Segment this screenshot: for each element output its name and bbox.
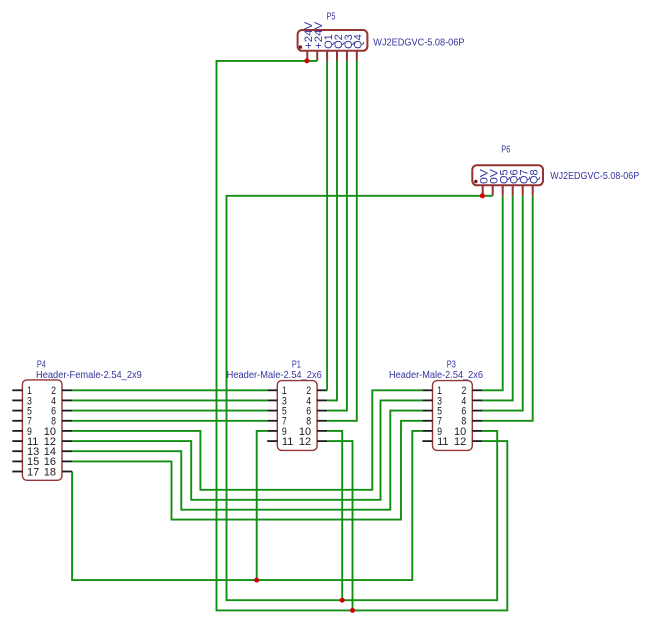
svg-text:11: 11 <box>437 436 448 448</box>
wire Q4: P5 pin6 down to P1 pin8 <box>327 61 357 421</box>
P5 pin name labels +24V +24V Q1 Q2 Q3 Q4 (rotated) <box>303 21 365 49</box>
wire P4 pin8 to P1 pin7 <box>72 420 267 422</box>
wire P4 pin14 to P3 pin5 <box>72 411 422 510</box>
P6 pin-1 dot <box>474 180 477 183</box>
svg-text:Header-Male-2.54_2x6: Header-Male-2.54_2x6 <box>389 369 483 381</box>
junction 0V at P6 pin1 <box>480 193 485 198</box>
P5 pin stubs (pins 1-6) <box>307 51 357 61</box>
connector P5 body (WJ2EDGVC-5.08-06P terminal block) <box>298 30 368 51</box>
wire P1 pin9 down to y=580 run <box>257 431 268 580</box>
wire P1 pin10 to 0V bottom run <box>327 431 342 600</box>
junction +24V bottom at x=352.5 <box>350 608 355 613</box>
svg-text:Q4: Q4 <box>353 34 365 49</box>
P1 left pin stubs <box>267 390 277 441</box>
wire P4 pin6 to P1 pin5 <box>72 410 267 412</box>
wire Q7: P6 pin5 down to P3 pin6 <box>482 196 522 411</box>
wire 0V bus: P6 pins 1-2 across, down, bottom run to P1.10/P3.10 <box>227 196 498 600</box>
wire P4 pin18 down and bottom run y=580 to P3 pin9 <box>72 431 422 580</box>
P4 left pin stubs <box>12 390 22 471</box>
svg-text:18: 18 <box>44 466 56 478</box>
wire P1 pin12 to +24V bottom run <box>327 441 352 610</box>
svg-text:12: 12 <box>299 436 311 448</box>
P3 right pin stubs <box>472 390 482 441</box>
wire Q1: P5 pin3 down to P1 pin2 <box>326 61 328 390</box>
svg-text:Header-Male-2.54_2x6: Header-Male-2.54_2x6 <box>227 369 322 381</box>
wire P4 pin10 to P3 pin1 <box>72 390 422 490</box>
P3 left pin stubs <box>422 390 432 441</box>
wire Q3: P5 pin5 down to P1 pin6 <box>327 61 347 411</box>
P4 pin numbers <box>27 385 56 478</box>
P4 right pin stubs <box>62 390 72 471</box>
wire P4 pin4 to P1 pin3 <box>72 399 267 401</box>
svg-text:17: 17 <box>27 466 39 478</box>
P3 pin numbers <box>437 385 466 448</box>
connector P3 body (Header-Male-2.54_2x6) <box>433 381 473 451</box>
svg-text:12: 12 <box>454 436 466 448</box>
connector P4 body (Header-Female-2.54_2x9) <box>22 380 62 480</box>
P6 pin stubs (pins 1-6) <box>483 185 533 195</box>
connector P6 body (WJ2EDGVC-5.08-06P terminal block) <box>472 165 543 185</box>
svg-text:11: 11 <box>282 436 293 448</box>
wire P4 pin12 to P3 pin3 <box>72 400 422 499</box>
wire P4 pin16 to P3 pin7 <box>72 421 422 520</box>
junction signal net at x=256.7 y=580 <box>254 578 259 583</box>
svg-text:WJ2EDGVC-5.08-06P: WJ2EDGVC-5.08-06P <box>550 170 639 182</box>
wire Q5: P6 pin3 down to P3 pin2 <box>482 196 502 391</box>
svg-text:Q8: Q8 <box>529 169 541 184</box>
wire Q6: P6 pin4 down to P3 pin4 <box>482 196 512 401</box>
connector P1 body (Header-Male-2.54_2x6) <box>277 381 317 451</box>
junction 0V bottom at x=342.2 <box>340 598 345 603</box>
wire Q2: P5 pin4 down to P1 pin4 <box>327 61 337 401</box>
wire +24V bus: P5 pins 1-2 across, down left side, bottom run to P1.12/P3.12 <box>217 61 508 611</box>
junction +24V at P5 pin1 <box>304 58 309 63</box>
svg-text:P6: P6 <box>501 143 510 155</box>
P6 pin name labels 0V 0V Q5 Q6 Q7 Q8 (rotated) <box>479 168 541 184</box>
wire P4 pin2 to P1 pin1 <box>72 389 267 391</box>
svg-text:Header-Female-2.54_2x9: Header-Female-2.54_2x9 <box>36 369 142 381</box>
svg-text:WJ2EDGVC-5.08-06P: WJ2EDGVC-5.08-06P <box>373 36 464 48</box>
P1 pin numbers <box>282 385 311 448</box>
P5 pin-1 dot <box>299 45 302 48</box>
wire Q8: P6 pin6 down to P3 pin8 <box>482 196 532 421</box>
P1 right pin stubs <box>317 390 327 441</box>
svg-text:P5: P5 <box>327 10 336 22</box>
